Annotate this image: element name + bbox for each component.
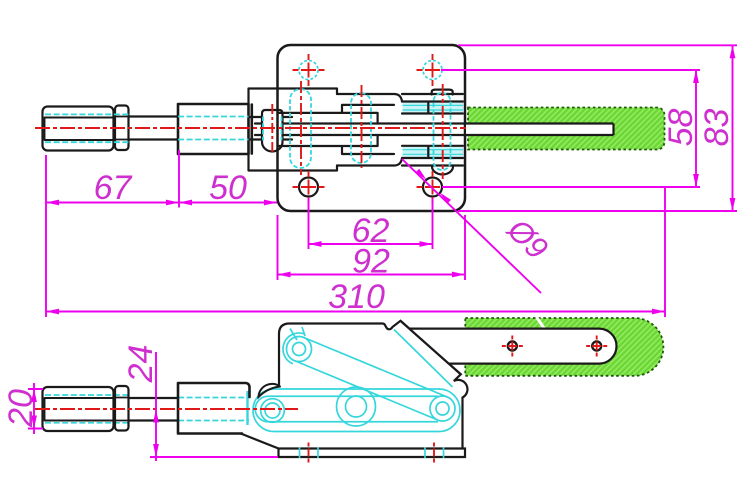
lever end cap arc bbox=[283, 333, 305, 364]
dim line 310 bbox=[46, 311, 665, 313]
lever upper hidden edges bbox=[394, 330, 453, 388]
pin2 capsule hidden bbox=[290, 89, 311, 168]
arrowheads bbox=[31, 45, 735, 457]
cyan band upper bbox=[403, 103, 464, 114]
screw hole 2 bbox=[592, 342, 601, 351]
spindle (top view) bbox=[43, 107, 114, 151]
arrow 92 left bbox=[278, 272, 291, 278]
crosshair hole TL bbox=[293, 54, 325, 86]
spindle (lower view) bbox=[43, 387, 114, 431]
rear pin bottom bulge bbox=[432, 167, 453, 175]
body outline bbox=[279, 321, 467, 449]
svg-text:50: 50 bbox=[209, 169, 247, 207]
right pivot circle bbox=[430, 396, 455, 421]
clevis pivot circle bbox=[261, 399, 285, 423]
shine mark bbox=[537, 317, 547, 331]
pin1 hidden sides bbox=[263, 117, 282, 141]
crosshair hole BR bbox=[417, 171, 449, 203]
dimension texts bbox=[2, 109, 736, 428]
pin4 capsule hidden bbox=[434, 93, 451, 170]
svg-text:24: 24 bbox=[122, 345, 160, 384]
nut facets (top view) bbox=[115, 117, 129, 140]
rod (top view) bbox=[129, 117, 178, 140]
handle bar white bbox=[409, 329, 617, 364]
arrow 50 left bbox=[179, 200, 192, 206]
red centerlines (lower view) bbox=[35, 336, 607, 463]
ext plate bottom to 83 bbox=[458, 210, 737, 212]
main pivot circle bbox=[337, 387, 376, 426]
pivot pin 1 capsule bbox=[262, 110, 283, 152]
crosshair hole BL bbox=[293, 171, 325, 203]
ext line x46 bbox=[45, 155, 47, 317]
band hatch lines bbox=[403, 105, 464, 154]
screw hole 1 bbox=[508, 342, 517, 351]
foot hole centerline left bbox=[308, 443, 310, 463]
dim 24 ext bbox=[150, 456, 278, 458]
dim line 62 bbox=[309, 243, 433, 245]
handle bar (lower view) bbox=[401, 321, 617, 375]
ext hole BR to 58 bbox=[442, 186, 700, 188]
dim line 83 bbox=[732, 45, 734, 211]
arrow 24 top bbox=[153, 410, 159, 423]
foot hole centerline right bbox=[433, 443, 435, 463]
arrow dia9 upper bbox=[415, 169, 426, 180]
red centerlines (top view) bbox=[35, 54, 466, 203]
body nose leaf bbox=[259, 384, 281, 397]
ext plate top to 83 bbox=[458, 44, 737, 46]
arrow dia9 lower bbox=[440, 193, 451, 204]
clevis (top view) bbox=[250, 117, 292, 140]
arrow 20 top bbox=[31, 389, 37, 402]
pale cyan bands (hidden lever in plate) bbox=[403, 103, 464, 158]
arrow 92 right bbox=[452, 272, 465, 278]
arrow 67 right bbox=[166, 200, 179, 206]
arrow 58 bottom bbox=[693, 174, 699, 187]
upper/lower lever bars with arcs bbox=[337, 94, 402, 166]
hidden rod in cylinder bbox=[246, 391, 248, 425]
dim line 67/50 bbox=[46, 202, 277, 204]
arrow 62 right bbox=[420, 241, 433, 247]
cyan hidden internals (lower view) bbox=[45, 327, 460, 432]
ext plate right down bbox=[464, 215, 466, 280]
green grip bbox=[465, 318, 663, 376]
spindle nut (top view) bbox=[115, 106, 129, 151]
arrow 310 left bbox=[46, 309, 59, 315]
pin3 capsule hidden bbox=[351, 93, 371, 163]
arrow 67 left bbox=[46, 200, 59, 206]
svg-text:58: 58 bbox=[662, 109, 700, 147]
link capsule hidden bbox=[253, 389, 460, 432]
pin1 centerline bbox=[271, 104, 273, 152]
lower centerline bbox=[35, 408, 298, 410]
ext hole BL down bbox=[308, 198, 310, 249]
dim line 24 bbox=[155, 352, 157, 461]
pin4 centerline bbox=[442, 84, 444, 179]
hole top-left hidden circle bbox=[299, 61, 318, 80]
dim 20 ext lines bbox=[28, 389, 43, 429]
arrow 20 bottom bbox=[31, 416, 37, 429]
svg-text:20: 20 bbox=[2, 389, 40, 428]
pin3 centerline bbox=[361, 85, 363, 168]
green grip (lower view) bbox=[465, 317, 663, 376]
ext green end down bbox=[664, 188, 666, 317]
housing outline bbox=[249, 89, 338, 171]
plate bbox=[278, 45, 466, 211]
spindle nut (lower view) bbox=[115, 386, 129, 431]
rod-end link hidden bbox=[255, 396, 438, 422]
rear pin head (top) bbox=[432, 90, 453, 95]
spindle hex facets (lower view) bbox=[45, 398, 114, 421]
ext hole TR to 58 bbox=[441, 69, 700, 71]
nut facets (lower view) bbox=[115, 398, 129, 421]
foot hole hidden edges bbox=[300, 448, 444, 459]
arrow 62 left bbox=[309, 241, 322, 247]
plate holes bottom (black) bbox=[299, 178, 442, 197]
finger plates bbox=[278, 105, 394, 154]
leader dia9 bbox=[402, 159, 541, 293]
foot bbox=[241, 434, 465, 458]
band edges black bbox=[402, 94, 463, 166]
screw crosshair 2 bbox=[586, 336, 607, 357]
ext line x179 bbox=[178, 150, 180, 208]
svg-text:83: 83 bbox=[698, 109, 736, 147]
arrow 50 right bbox=[264, 200, 277, 206]
ext plate left down bbox=[277, 215, 279, 280]
cylinder (top view) bbox=[178, 104, 252, 154]
slot in grip bbox=[466, 124, 614, 136]
cylinder (lower view) bbox=[178, 383, 250, 434]
svg-text:310: 310 bbox=[328, 278, 385, 316]
green handle bar (top view) bbox=[465, 108, 665, 150]
rod (lower view) bbox=[129, 398, 178, 421]
pin2 centerline bbox=[300, 81, 302, 175]
hole bottom-right bbox=[423, 178, 442, 197]
thread hidden lines lower bbox=[45, 395, 249, 423]
lever hidden edges bbox=[294, 338, 447, 421]
toggle link upper bbox=[290, 327, 305, 340]
arrow 310 right bbox=[652, 309, 665, 315]
arrow 83 top bbox=[730, 45, 736, 58]
cyan hidden elements (top view) bbox=[45, 61, 451, 171]
spindle hex facets (top view) bbox=[45, 118, 114, 141]
arrow 24 bottom bbox=[153, 444, 159, 457]
thread hidden lines bbox=[45, 114, 249, 142]
crosshair hole TR bbox=[417, 54, 449, 86]
green grip top view bbox=[468, 108, 665, 150]
main centerline bbox=[35, 127, 466, 129]
dim line 20 bbox=[33, 383, 35, 434]
screw crosshair 1 bbox=[502, 336, 523, 357]
hole top-right hidden circle bbox=[423, 61, 442, 80]
svg-text:92: 92 bbox=[352, 243, 390, 281]
arrow 58 top bbox=[693, 70, 699, 83]
body diagonal over bar bbox=[401, 321, 461, 375]
body (lower view, black) bbox=[43, 321, 468, 457]
arrow 83 bottom bbox=[730, 198, 736, 211]
top-left pivot circle bbox=[287, 337, 312, 362]
dim line 92 bbox=[278, 274, 466, 276]
ext hole BR down bbox=[432, 198, 434, 249]
cyan band lower bbox=[403, 147, 464, 158]
slot / rod lines to handle bbox=[255, 124, 614, 136]
dim line 58 bbox=[695, 70, 697, 187]
svg-text:67: 67 bbox=[94, 169, 133, 207]
hole bottom-left bbox=[299, 178, 318, 197]
